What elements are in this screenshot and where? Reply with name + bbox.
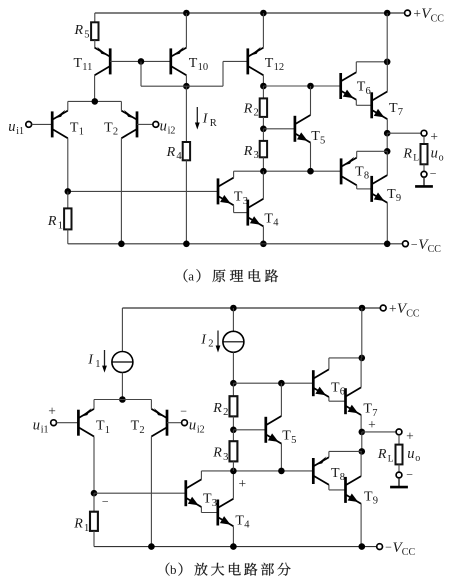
transistor T6 (b) <box>313 369 329 397</box>
transistor T5 (a) <box>295 115 311 143</box>
svg-text:4: 4 <box>244 520 250 531</box>
svg-text:u: u <box>189 418 196 434</box>
svg-text:T: T <box>131 419 140 434</box>
transistor T9 (a) <box>372 175 388 203</box>
svg-text:2: 2 <box>254 108 259 119</box>
arrow I2 current <box>217 331 219 348</box>
wire T4 emitter to rail (b) <box>232 526 234 546</box>
resistor R5 <box>91 22 98 40</box>
transistor T12 <box>248 47 264 75</box>
svg-text:T: T <box>234 190 243 205</box>
wire T5 emitter down (b) <box>280 444 282 471</box>
svg-text:2: 2 <box>223 407 228 418</box>
svg-text:9: 9 <box>396 193 401 204</box>
wire T12 base down <box>222 61 224 86</box>
svg-text:R: R <box>212 401 222 416</box>
wire T8 collector to T9 base (b) <box>329 489 346 491</box>
svg-text:+: + <box>239 476 247 491</box>
wire T6 emitter to T7 base <box>356 104 371 106</box>
wire R1 to rail (b) <box>93 531 95 547</box>
wire T6 collector up (b) <box>328 358 330 370</box>
junction T8 emitter node (b) <box>359 448 366 455</box>
wire ui1 to T1 base <box>32 123 53 125</box>
wire node to R1 <box>67 191 69 208</box>
svg-text:11: 11 <box>82 62 92 73</box>
wire T4 collector up (b) <box>232 471 234 499</box>
wire T1 emitter up (b) <box>93 400 95 409</box>
svg-text:1: 1 <box>58 220 63 231</box>
wire to RL (a) <box>423 136 425 144</box>
terminal output - (b) <box>396 472 402 478</box>
transistor T10 <box>171 47 187 75</box>
caption (a) parens 2 <box>196 269 200 282</box>
svg-text:+: + <box>368 417 376 432</box>
wire T8 emitter up (b) <box>328 451 330 457</box>
wire T1 collector node to T3 base <box>68 190 218 192</box>
junction T10 emitter / rail <box>183 10 190 17</box>
resistor RL (b) <box>396 445 403 465</box>
junction R4 branch / rail <box>183 241 190 248</box>
junction T2 collector / rail <box>118 241 125 248</box>
wire R2 to T5 base node (b) <box>232 416 234 429</box>
svg-text:R: R <box>377 447 387 462</box>
junction R2 top node (b) <box>230 380 237 387</box>
resistor R2 <box>260 98 267 117</box>
terminal +Vcc (a) <box>405 10 411 16</box>
transistor T3 (b) <box>186 479 202 507</box>
junction I2 / rail (b) <box>230 305 237 312</box>
svg-text:b: b <box>170 562 177 577</box>
caption (a) parens+chars 1 <box>184 269 188 282</box>
wire I1 to tail node <box>121 373 123 400</box>
wire +Vcc column (b) <box>361 308 363 358</box>
junction mirror node <box>183 83 190 90</box>
wire T7 collector up (b) <box>360 358 362 388</box>
wire T6 collector to column (b) <box>329 357 362 359</box>
transistor T3 (a) <box>218 178 234 206</box>
wire R5 to T11 emitter <box>94 40 96 48</box>
svg-text:T: T <box>364 489 373 504</box>
svg-text:i2: i2 <box>168 126 176 137</box>
transistor T1 (b) <box>78 408 94 436</box>
junction T1 collector node (b) <box>91 490 98 497</box>
wire emitter tie line <box>68 100 122 102</box>
transistor T4 (b) <box>218 499 234 527</box>
svg-text:3: 3 <box>254 150 259 161</box>
wire mirror base tie horizontal <box>141 85 186 87</box>
wire node to R1 (b) <box>93 493 95 512</box>
svg-text:T: T <box>282 429 291 444</box>
wire T4 collector up <box>262 171 264 199</box>
svg-text:+: + <box>430 129 438 144</box>
svg-text:3: 3 <box>223 452 228 463</box>
junction T6 T7 collectors <box>384 59 391 66</box>
wire T12 emitter to rail <box>262 13 264 48</box>
wire T2 emitter up <box>120 101 122 110</box>
transistor T2 (b) <box>151 408 167 436</box>
wire rail to R5 <box>94 13 96 22</box>
svg-text:T: T <box>331 380 340 395</box>
svg-text:−: − <box>406 467 413 481</box>
transistor T8 (a) <box>341 157 357 185</box>
wire T6 emitter stub (b) <box>328 397 330 401</box>
svg-text:−: − <box>180 404 187 418</box>
svg-text:i1: i1 <box>41 424 49 435</box>
svg-text:L: L <box>388 454 394 464</box>
wire T5 collector up (b) <box>280 383 282 416</box>
transistor T2 (a) <box>121 110 137 138</box>
current source I2 <box>223 331 244 352</box>
svg-text:R: R <box>212 446 222 461</box>
svg-text:1: 1 <box>105 425 110 436</box>
svg-text:T: T <box>363 402 372 417</box>
wire T2 collector to rail (b) <box>150 437 152 547</box>
wire T4 emitter to rail <box>262 226 264 243</box>
wire T9 emitter to rail (b) <box>360 504 362 547</box>
wire T5 collector up <box>310 86 312 115</box>
wire T1 collector down <box>67 138 69 191</box>
wire T9 emitter to rail <box>386 203 388 244</box>
transistor T7 (a) <box>372 92 388 120</box>
junction T5 emitter / T8 base line (b) <box>278 468 285 475</box>
wire T6 emitter down <box>355 100 357 106</box>
current source I1 <box>112 352 133 373</box>
junction right column / rail <box>384 10 391 17</box>
svg-text:o: o <box>415 453 420 464</box>
junction column / rail (b) <box>359 305 366 312</box>
transistor T8 (b) <box>313 456 329 484</box>
transistor T7 (b) <box>346 387 362 415</box>
caption (b) paren 2 <box>178 563 182 576</box>
svg-text:5: 5 <box>291 435 296 446</box>
svg-text:u: u <box>431 145 438 161</box>
caption (a) text <box>212 269 225 282</box>
junction T9 / rail <box>384 241 391 248</box>
svg-text:T: T <box>264 211 273 226</box>
terminal ui1 (a) <box>26 122 32 128</box>
arrow IR current <box>196 107 198 124</box>
wire ui1 to T1 base (b) <box>57 422 79 424</box>
wire T9 collector up <box>386 151 388 175</box>
svg-text:T: T <box>96 419 105 434</box>
resistor R3 (b) <box>230 441 238 461</box>
svg-text:u: u <box>8 119 15 135</box>
svg-text:T: T <box>265 56 274 71</box>
terminal ui2 (b) <box>182 420 188 426</box>
wire +Vcc rail (b) <box>122 307 380 309</box>
wire R4 to -Vcc rail <box>185 160 187 244</box>
svg-text:3: 3 <box>212 498 217 509</box>
svg-text:R: R <box>243 144 253 159</box>
junction T5 collector / T6 base <box>307 83 314 90</box>
wire +Vcc rail (a) <box>95 12 405 14</box>
junction R2 R3 T5 base (b) <box>230 427 237 434</box>
caption (b) text <box>195 563 208 576</box>
terminal output + (a) <box>421 130 427 136</box>
svg-text:+: + <box>413 6 421 21</box>
terminal output + (b) <box>396 429 402 435</box>
junction T12 collector node <box>260 83 267 90</box>
terminal -Vcc (a) <box>403 241 409 247</box>
wire T8 collector down (b) <box>328 485 330 490</box>
wire RL to terminal (b) <box>398 464 400 472</box>
wire node to R3 (b) <box>232 430 234 441</box>
terminal -Vcc (b) <box>377 544 383 550</box>
junction T4 emitter / rail (b) <box>230 543 237 550</box>
wire -Vcc rail (a) <box>68 243 403 245</box>
svg-text:T: T <box>189 56 198 71</box>
svg-text:R: R <box>243 101 253 116</box>
wire R3 to lower node <box>262 157 264 171</box>
wire T3 collector up (b) <box>200 471 202 480</box>
wire output to RL (b) <box>362 431 396 433</box>
wire node to R3 <box>262 129 264 141</box>
svg-text:CC: CC <box>402 547 416 558</box>
wire T5 emitter down <box>310 143 312 172</box>
svg-text:T: T <box>389 101 398 116</box>
svg-text:1: 1 <box>95 359 100 370</box>
svg-text:i1: i1 <box>16 126 24 137</box>
svg-text:T: T <box>311 129 320 144</box>
svg-text:u: u <box>33 418 40 434</box>
junction T2 collector / rail (b) <box>148 543 155 550</box>
wire T8 collector down <box>356 185 358 189</box>
wire output to RL <box>387 132 421 134</box>
wire T12 collector down <box>262 75 264 86</box>
svg-text:T: T <box>355 164 364 179</box>
wire to T5 base <box>263 128 295 130</box>
svg-text:T: T <box>203 492 212 507</box>
wire mirror base tie vertical <box>140 61 142 86</box>
transistor T4 (a) <box>248 199 264 227</box>
wire output node down (b) <box>361 432 363 452</box>
svg-text:7: 7 <box>398 107 403 118</box>
wire to RL (b) <box>398 435 400 445</box>
wire rail to I1 <box>121 308 123 352</box>
wire T7 emitter down <box>386 119 388 133</box>
wire T2 collector to -Vcc rail <box>120 138 122 244</box>
svg-text:+: + <box>406 428 414 443</box>
arrow I1 current <box>104 350 106 367</box>
wire +Vcc column <box>386 13 388 62</box>
svg-text:T: T <box>235 513 244 528</box>
resistor R2 (b) <box>230 396 238 416</box>
svg-text:CC: CC <box>428 244 442 255</box>
junction T4 emitter / rail <box>260 241 267 248</box>
svg-text:o: o <box>439 152 444 163</box>
svg-text:12: 12 <box>274 62 285 73</box>
ground (a) <box>423 177 425 186</box>
wire T2 base to ui2 <box>137 123 153 125</box>
wire T9 collector up (b) <box>360 451 362 476</box>
wire I2 to node (b) <box>232 352 234 383</box>
svg-text:R: R <box>210 118 217 129</box>
svg-text:R: R <box>47 214 57 229</box>
svg-text:8: 8 <box>364 171 369 182</box>
svg-text:T: T <box>331 466 340 481</box>
svg-text:2: 2 <box>139 425 144 436</box>
wire T2 base to ui2 (b) <box>167 422 182 424</box>
resistor RL (a) <box>421 144 428 164</box>
wire T7 emitter down (b) <box>360 415 362 432</box>
wire T3 collector up <box>233 171 235 177</box>
svg-text:u: u <box>407 446 414 462</box>
svg-text:5: 5 <box>320 135 325 146</box>
svg-text:4: 4 <box>273 218 279 229</box>
svg-text:1: 1 <box>79 127 84 138</box>
wire T7 collector up <box>386 62 388 92</box>
svg-text:5: 5 <box>84 29 89 40</box>
wire T12 collector to T6 base <box>263 85 340 87</box>
wire T3 emitter to T4 base <box>234 212 248 214</box>
wire T10 emitter to rail <box>185 13 187 48</box>
junction T8 emitter node <box>384 148 391 155</box>
wire node to T6 base (b) <box>233 382 313 384</box>
wire T3 emitter to T4 base (b) <box>201 512 217 514</box>
wire T8 collector to T9 base <box>357 188 372 190</box>
transistor T9 (b) <box>346 476 362 504</box>
junction R3 / Darlington collectors (b) <box>230 468 237 475</box>
svg-text:6: 6 <box>366 86 371 97</box>
svg-text:T: T <box>74 56 83 71</box>
svg-text:+: + <box>48 404 56 419</box>
wire R1 to -Vcc rail <box>67 229 69 243</box>
resistor R4 <box>183 142 190 160</box>
svg-text:R: R <box>74 23 84 38</box>
svg-text:2: 2 <box>208 339 213 350</box>
junction tail node (b) <box>119 396 126 403</box>
wire T11 base - T10 base <box>110 60 171 62</box>
junction mirror base node <box>138 58 145 65</box>
junction T5 emitter / T8 base line <box>307 168 314 175</box>
wire R2 to T5 base node <box>262 117 264 129</box>
wire T3 emitter down (b) <box>200 507 202 513</box>
svg-text:L: L <box>413 154 419 164</box>
svg-text:1: 1 <box>84 523 89 534</box>
svg-text:−: − <box>385 540 392 554</box>
transistor T5 (b) <box>266 416 282 444</box>
junction T9 / rail (b) <box>359 543 366 550</box>
junction R1 / T1 collector <box>65 188 72 195</box>
terminal output - (a) <box>421 171 427 177</box>
transistor T11 <box>95 47 111 75</box>
wire T8 emitter to output node <box>357 150 388 152</box>
junction R2 R3 T5 base <box>260 126 267 133</box>
svg-text:9: 9 <box>373 496 378 507</box>
junction output node (b) <box>359 429 366 436</box>
junction T6 T7 collectors (b) <box>359 355 366 362</box>
svg-text:T: T <box>357 80 366 95</box>
junction T12 emitter / rail <box>260 10 267 17</box>
svg-text:T: T <box>70 120 79 135</box>
caption (b) paren 1 <box>166 563 170 576</box>
wire emitter tie line (b) <box>94 399 151 401</box>
wire T6 collector up <box>355 62 357 72</box>
svg-text:T: T <box>387 187 396 202</box>
wire Darlington collector node to T8 base <box>234 170 342 172</box>
svg-text:i2: i2 <box>197 424 205 435</box>
wire T12 base to mirror node <box>186 85 223 87</box>
terminal ui1 (b) <box>51 420 57 426</box>
wire R3 to Darlington node (b) <box>232 461 234 471</box>
wire -Vcc rail (b) <box>94 546 377 548</box>
transistor T1 (a) <box>52 110 68 138</box>
wire Darlington node line (b) <box>201 470 313 472</box>
wire rail to I2 <box>232 308 234 331</box>
svg-text:R: R <box>166 145 176 160</box>
wire T6 collector to column <box>356 61 387 63</box>
svg-text:+: + <box>389 301 397 316</box>
svg-text:a: a <box>188 268 194 283</box>
svg-text:−: − <box>102 494 109 508</box>
svg-text:u: u <box>160 119 167 135</box>
junction tail current node <box>92 98 99 105</box>
transistor T6 (a) <box>341 72 357 100</box>
svg-text:CC: CC <box>431 13 445 24</box>
wire RL to terminal <box>423 164 425 171</box>
svg-text:T: T <box>104 120 113 135</box>
wire T8 emitter to output node (b) <box>329 450 362 452</box>
resistor R1 <box>64 208 71 229</box>
resistor R3 <box>260 141 267 157</box>
svg-text:−: − <box>411 237 418 251</box>
wire node to T3 base (b) <box>94 492 186 494</box>
wire T11 collector down <box>94 75 96 101</box>
wire T1 emitter up <box>67 101 69 110</box>
wire node to R2 <box>262 86 264 98</box>
terminal +Vcc (b) <box>380 305 386 311</box>
svg-text:−: − <box>430 166 437 180</box>
svg-text:R: R <box>73 517 83 532</box>
svg-text:10: 10 <box>198 62 209 73</box>
wire T2 emitter up (b) <box>150 400 152 409</box>
wire T12 base left <box>223 60 248 62</box>
junction output node (a) <box>384 130 391 137</box>
svg-text:2: 2 <box>113 127 118 138</box>
wire to T5 base (b) <box>233 429 265 431</box>
resistor R1 (b) <box>90 512 98 531</box>
wire T1 collector down (b) <box>93 437 95 494</box>
svg-text:CC: CC <box>406 308 420 319</box>
wire T10 collector down <box>185 75 187 86</box>
junction R3 / T3 T4 collectors <box>260 168 267 175</box>
wire output node down <box>386 133 388 151</box>
svg-text:4: 4 <box>176 151 182 162</box>
terminal ui2 (a) <box>153 122 159 128</box>
wire T6 emitter to T7 base (b) <box>329 400 346 402</box>
wire node to R2 (b) <box>232 383 234 396</box>
ground (b) <box>398 478 400 487</box>
svg-text:R: R <box>402 146 412 161</box>
wire bus to R4 <box>185 86 187 142</box>
wire T3 emitter down <box>233 205 235 212</box>
wire T8 emitter up <box>356 151 358 157</box>
junction T5 collector node (b) <box>278 380 285 387</box>
